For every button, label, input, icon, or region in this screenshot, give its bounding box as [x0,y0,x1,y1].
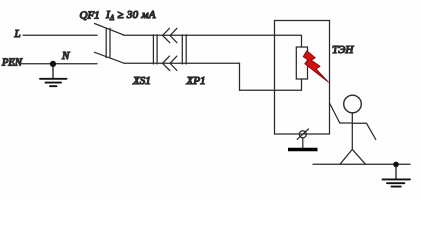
connector chevrons bottom pin [163,56,177,70]
breaker QF1 bottom pole blade [95,52,125,63]
breaker QF1 rating label [105,9,156,22]
breaker QF1 label [80,9,100,21]
breaker QF1 linkage [106,28,110,57]
svg-text:N: N [61,50,70,62]
wire L input [23,34,97,36]
wire L after breaker [123,34,301,36]
svg-text:QF1: QF1 [80,9,100,21]
svg-text:PEN: PEN [1,58,23,69]
heater TEN label [332,44,354,56]
person legs [340,149,366,164]
heater element TEN [296,47,307,79]
wire clamp to earth electrode [302,138,304,148]
heater element lead bottom [301,79,303,90]
node PEN label [1,58,23,69]
person right arm [352,123,376,139]
lightning bolt fault [303,51,328,82]
person head [344,95,362,113]
node N label [61,50,70,62]
svg-text:XS1: XS1 [132,75,151,87]
connector XS1 label [132,75,151,87]
floor line [313,163,410,165]
ground floor earth [383,164,411,186]
node PEN junction [50,61,56,67]
person body [351,113,353,150]
svg-text:IΔ ≥ 30 мА: IΔ ≥ 30 мА [105,9,156,22]
terminal clamp on enclosure [297,129,308,139]
person left arm touching enclosure [330,103,353,123]
wire N after breaker [124,62,240,64]
enclosure box [275,21,330,135]
wire PEN/N input [20,63,97,65]
node floor junction [393,162,399,168]
connector XS1 socket bars [153,35,157,64]
connector chevrons top pin [163,28,177,42]
earth electrode bar [288,148,318,151]
svg-text:XP1: XP1 [186,75,206,87]
ground PEN earth [40,64,67,86]
svg-text:ТЭН: ТЭН [332,44,354,56]
connector XP1 plug bars [182,35,186,64]
breaker QF1 top pole blade [95,24,124,35]
node L label [14,28,21,40]
heater element lead top [301,35,303,47]
wire N drop to enclosure [240,63,302,90]
svg-text:L: L [14,28,21,40]
connector XP1 label [186,75,206,87]
